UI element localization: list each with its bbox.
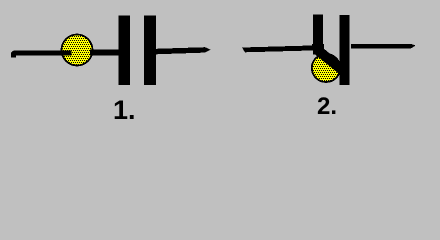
capacitor C1 right plate	[144, 16, 156, 86]
wire (lead from highlight to left plate of capacitor 1)	[90, 50, 119, 56]
wire (left lead of capacitor 2)	[242, 45, 318, 52]
wire (left lead of capacitor 1, over highlight)	[11, 50, 72, 57]
wire (diagonal short between plates, error)	[318, 50, 344, 71]
svg-text:1.: 1.	[113, 95, 136, 125]
capacitor C1 left plate	[119, 16, 131, 86]
capacitor C2 right plate	[340, 15, 350, 85]
wire (right lead of capacitor 1)	[156, 47, 211, 54]
wire (right lead of capacitor 2)	[351, 44, 416, 49]
capacitor C2 left plate	[313, 15, 323, 55]
svg-text:2.: 2.	[317, 93, 337, 120]
wire junction (left plate, lead and short meeting point)	[312, 44, 324, 51]
node highlight (dotted yellow circle on shorted plates)	[312, 54, 340, 82]
node highlight (dotted yellow circle on capacitor 1 lead)	[62, 35, 93, 66]
